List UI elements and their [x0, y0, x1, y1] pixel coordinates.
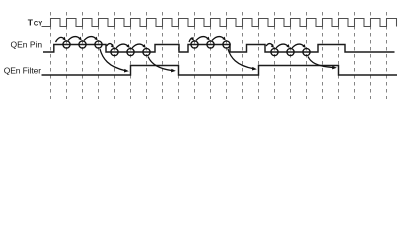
big arrow 1: pin high samples -> filter rise at 130 [100, 49, 126, 71]
dashed clock-edge grid lines [51, 12, 387, 99]
QEn Pin waveform [43, 45, 395, 53]
big arrow 4: pin low samples -> filter fall at 338 [308, 57, 334, 68]
hop arcs group 4 [266, 44, 305, 48]
TCY clock waveform [42, 19, 397, 27]
sample circles group 1 (high) [63, 41, 102, 48]
svg-text:QEn Pin: QEn Pin [11, 40, 43, 50]
svg-text:QEn Filter: QEn Filter [4, 66, 42, 76]
big arrow 2: pin low samples -> filter fall at 178 [148, 57, 173, 71]
big arrow 3: pin high samples -> filter rise at 258 [228, 49, 254, 69]
sample circles group 4 (low) [271, 48, 310, 55]
sample circles group 2 (low) [111, 48, 150, 55]
hop arcs group 1 [56, 37, 97, 42]
hop arcs group 3 [189, 37, 225, 42]
svg-text:CY: CY [34, 22, 42, 28]
sample circles group 3 (high) [191, 41, 230, 48]
svg-text:T: T [28, 18, 34, 28]
QEn Filter waveform [42, 66, 398, 76]
hop arcs group 2 [107, 44, 145, 48]
